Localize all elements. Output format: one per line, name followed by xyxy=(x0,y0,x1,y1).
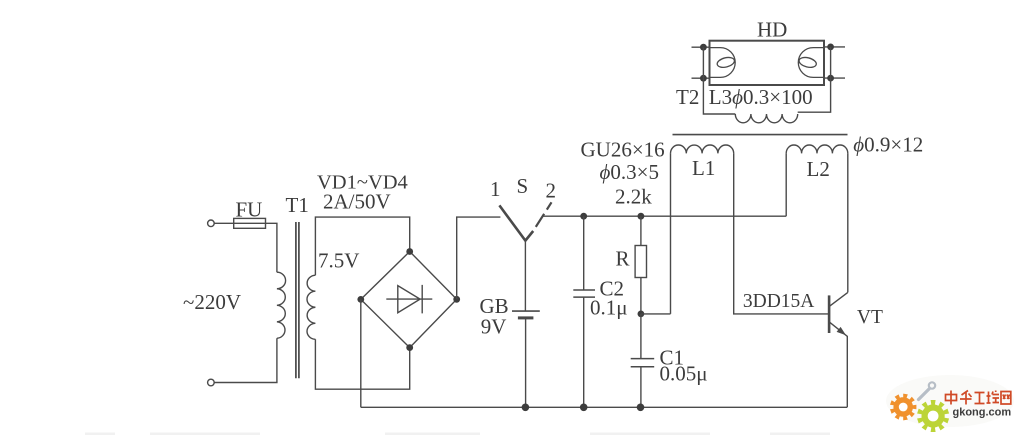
battery GB positive plate xyxy=(512,310,540,312)
svg-text:2: 2 xyxy=(546,179,557,203)
lamp HD left filament xyxy=(710,48,736,78)
inductor L3 winding xyxy=(735,114,797,123)
T1 core bars xyxy=(296,222,299,378)
terminal bottom-left input xyxy=(208,379,215,386)
watermark green gear xyxy=(917,400,949,432)
wire L2 right lead down to collector xyxy=(847,153,849,292)
svg-text:7.5V: 7.5V xyxy=(318,248,359,272)
svg-text:R: R xyxy=(616,246,630,270)
svg-text:gkong.com: gkong.com xyxy=(953,407,1012,419)
node R bottom junction xyxy=(638,311,645,318)
node battery-rail junction xyxy=(522,404,530,412)
lamp HD right filament xyxy=(798,48,824,78)
node R top junction xyxy=(638,213,645,220)
node bridge top xyxy=(406,248,413,255)
transistor VT base bar xyxy=(828,295,831,333)
wire bridge right vertex up to switch contact 1 xyxy=(457,217,501,299)
svg-text:2A/50V: 2A/50V xyxy=(323,190,391,214)
svg-text:FU: FU xyxy=(236,198,263,222)
inductor L2 winding xyxy=(786,145,848,153)
svg-text:L1: L1 xyxy=(692,156,715,180)
resistor R body xyxy=(635,246,646,278)
svg-text:0.1μ: 0.1μ xyxy=(590,296,628,320)
watermark orange gear xyxy=(890,394,916,421)
wire bridge left vertex down to ground rail xyxy=(360,299,362,407)
wire switch pivot down to battery xyxy=(524,241,526,312)
char zhong xyxy=(946,391,957,405)
transistor VT collector xyxy=(829,292,848,306)
node lamp pin top-right xyxy=(827,44,834,51)
switch S arm (contact 1) xyxy=(499,205,533,240)
switch S dashed throw to contact 2 xyxy=(536,202,552,227)
wire L1 left lead down xyxy=(670,153,672,314)
capacitor C2 plates xyxy=(573,290,595,297)
node lamp pin bottom-right xyxy=(827,75,834,82)
svg-text:T1: T1 xyxy=(286,193,309,217)
lamp HD left filament coil ellipse xyxy=(716,56,735,69)
svg-text:ϕ0.9×12: ϕ0.9×12 xyxy=(853,133,923,157)
char kong xyxy=(987,391,1000,404)
wire T1 secondary top to bridge AC top xyxy=(315,217,409,275)
svg-text:HD: HD xyxy=(757,18,787,42)
transistor VT emitter xyxy=(829,322,847,408)
svg-text:3DD15A: 3DD15A xyxy=(743,291,815,312)
transformer T1 secondary winding xyxy=(307,275,315,339)
char wang xyxy=(1001,392,1011,405)
wire T1 secondary bottom to bridge AC bottom xyxy=(315,339,409,389)
node bridge right xyxy=(453,296,460,303)
node C2-rail junction xyxy=(580,404,588,412)
wire L1 right lead to transistor base xyxy=(734,153,829,314)
lamp HD right pin stubs xyxy=(824,47,845,78)
node bridge bottom xyxy=(406,344,413,351)
svg-text:9V: 9V xyxy=(481,315,507,339)
char hua xyxy=(960,391,972,405)
wire T1 primary bottom to bottom terminal xyxy=(214,338,277,382)
transistor VT emitter arrow xyxy=(837,327,846,335)
svg-text:L3ϕ0.3×100: L3ϕ0.3×100 xyxy=(709,85,813,109)
watermark wrench icon xyxy=(919,382,936,399)
wire top rail from switch contact 2 to L2 left xyxy=(543,215,786,217)
inductor L1 winding xyxy=(671,145,734,153)
capacitor C1 plates xyxy=(631,359,655,367)
node lamp pin bottom-left xyxy=(700,75,707,82)
svg-text:S: S xyxy=(517,174,529,198)
wire lamp left pins down to L3 xyxy=(703,47,735,114)
svg-text:GU26×16: GU26×16 xyxy=(581,138,665,162)
wire L2 left lead to top rail xyxy=(785,153,787,216)
lamp HD right filament coil ellipse xyxy=(798,56,817,69)
transformer T1 primary winding xyxy=(277,272,286,338)
svg-text:VT: VT xyxy=(857,307,883,328)
svg-text:L2: L2 xyxy=(807,157,830,181)
svg-text:0.05μ: 0.05μ xyxy=(660,362,708,386)
lamp HD tube body xyxy=(710,41,825,85)
wire L3 right to lamp right pins xyxy=(798,47,831,112)
watermark glow backdrop xyxy=(886,375,1014,427)
diode symbol inside bridge xyxy=(386,285,432,314)
wire top input to fuse and T1 primary top xyxy=(214,223,277,272)
resistor R leads xyxy=(640,216,642,314)
svg-text:~220V: ~220V xyxy=(183,290,241,314)
capacitor C2 wires xyxy=(583,216,585,407)
svg-text:2.2k: 2.2k xyxy=(615,184,652,208)
wire battery to bottom rail xyxy=(525,318,527,407)
node C2 top junction xyxy=(580,213,587,220)
capacitor C1 wires xyxy=(640,314,642,407)
char gong xyxy=(975,393,985,404)
battery GB negative plate xyxy=(518,316,534,319)
svg-text:1: 1 xyxy=(490,177,501,201)
watermark chinese text zhonghua gongkong wang xyxy=(946,391,1011,405)
svg-text:T2: T2 xyxy=(676,85,699,109)
node C1-rail junction xyxy=(637,404,645,412)
wire R bottom to L1 left lead xyxy=(641,313,671,315)
core bar of L1 L2 xyxy=(673,134,848,136)
wire bottom rail xyxy=(361,406,847,408)
terminal top-left input xyxy=(208,220,215,227)
faint scan marks bottom edge xyxy=(85,433,830,436)
fuse FU xyxy=(234,218,266,228)
svg-text:ϕ0.3×5: ϕ0.3×5 xyxy=(600,160,659,184)
lamp HD left pin stubs xyxy=(692,47,710,78)
node lamp pin top-left xyxy=(700,44,707,51)
bridge rectifier VD1-VD4 diamond xyxy=(361,252,457,348)
node bridge left xyxy=(357,296,364,303)
